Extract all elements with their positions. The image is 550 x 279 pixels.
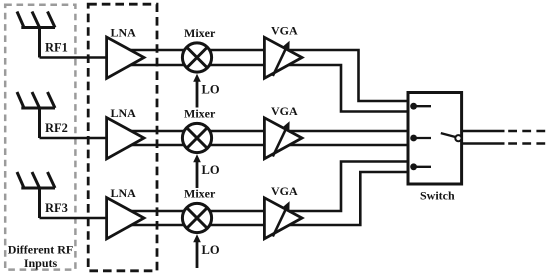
svg-text:LO: LO xyxy=(202,83,220,97)
svg-text:RF1: RF1 xyxy=(45,41,68,55)
VGA A6 xyxy=(264,198,302,239)
switch lever xyxy=(441,133,455,137)
svg-text:RF2: RF2 xyxy=(45,121,68,135)
switch box SW1 xyxy=(408,93,462,185)
wire diff pair bottom ch3 xyxy=(126,172,409,225)
svg-text:Mixer: Mixer xyxy=(184,107,216,121)
mixer M2 xyxy=(182,123,211,152)
svg-text:Inputs: Inputs xyxy=(24,256,58,270)
antenna ANT3 xyxy=(17,172,55,218)
wire output bottom xyxy=(462,142,547,145)
svg-text:Mixer: Mixer xyxy=(184,26,216,40)
wire output top xyxy=(462,130,547,133)
svg-text:LNA: LNA xyxy=(111,186,137,200)
LNA A3 xyxy=(107,198,144,239)
dashed box: LNA group xyxy=(88,4,157,271)
switch contact node 2 xyxy=(410,135,431,142)
wire diff pair top ch3 xyxy=(126,162,409,212)
LNA A1 xyxy=(107,37,144,78)
antenna ANT1 xyxy=(17,12,55,58)
svg-text:VGA: VGA xyxy=(271,104,298,118)
LNA A2 xyxy=(107,118,144,159)
svg-text:VGA: VGA xyxy=(271,24,298,38)
svg-text:LO: LO xyxy=(202,243,220,257)
antenna ANT2 xyxy=(17,92,55,138)
switch contact node 1 xyxy=(410,103,431,110)
dashed box: Different RF Inputs group xyxy=(5,5,75,270)
LO arrow into mixer M1 xyxy=(193,74,201,108)
VGA A4 xyxy=(264,37,302,78)
wire antenna to LNA3 xyxy=(40,217,108,220)
mixer M3 xyxy=(182,203,211,232)
mixer M1 xyxy=(182,43,211,72)
svg-text:RF3: RF3 xyxy=(45,201,68,215)
LO arrow into mixer M2 xyxy=(193,154,201,188)
svg-text:LNA: LNA xyxy=(111,26,137,40)
svg-text:Different RF: Different RF xyxy=(8,242,73,256)
svg-text:LO: LO xyxy=(202,163,220,177)
VGA A5 xyxy=(264,118,302,159)
wire diff pair top ch1 xyxy=(126,50,409,101)
wire diff pair top ch2 xyxy=(126,130,409,133)
wire antenna to LNA1 xyxy=(40,56,108,59)
svg-text:VGA: VGA xyxy=(271,184,298,198)
VGA gain arrow xyxy=(273,201,290,236)
wire antenna to LNA2 xyxy=(40,137,108,140)
svg-text:Mixer: Mixer xyxy=(184,187,216,201)
label Different RF Inputs xyxy=(8,242,73,270)
svg-text:LNA: LNA xyxy=(111,106,137,120)
svg-text:Switch: Switch xyxy=(420,189,455,203)
wire diff pair bottom ch1 xyxy=(126,65,409,112)
VGA gain arrow xyxy=(273,121,290,156)
switch contact node 3 xyxy=(410,163,431,170)
switch pole circle xyxy=(455,135,461,141)
wire diff pair bottom ch2 xyxy=(126,144,409,147)
LO arrow into mixer M3 xyxy=(193,234,201,268)
VGA gain arrow xyxy=(273,41,290,76)
